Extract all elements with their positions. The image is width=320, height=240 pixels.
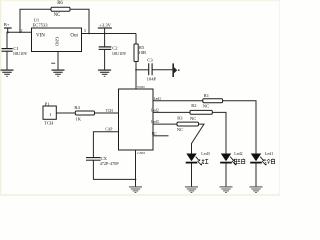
wire to C3 xyxy=(136,69,148,71)
resistor R4 xyxy=(75,111,94,115)
ground (IC) xyxy=(129,187,142,193)
junction +3.3V / C2 xyxy=(104,33,106,35)
wire R1 to Led1 xyxy=(223,101,256,154)
resistor R5 xyxy=(134,44,138,62)
svg-text:10U10V: 10U10V xyxy=(112,51,127,56)
resistor R3 xyxy=(177,122,199,126)
junction C3 tap xyxy=(135,69,137,71)
wire R5 to VDD xyxy=(135,62,137,90)
svg-text:EC7533: EC7533 xyxy=(33,22,49,27)
wire R2 to Led2 xyxy=(212,112,226,153)
svg-text:10R: 10R xyxy=(138,50,147,55)
color glyphs 暖白 (Led2) xyxy=(235,158,245,163)
svg-text:TCH: TCH xyxy=(106,109,114,113)
connector P1 xyxy=(43,106,56,119)
LED Led2 xyxy=(220,154,236,187)
svg-text:C3: C3 xyxy=(147,58,153,63)
wire B+ to VIN xyxy=(8,31,32,33)
junction gnd rail xyxy=(135,179,137,181)
wire Led1 pin xyxy=(153,100,203,102)
svg-text:104P: 104P xyxy=(147,76,157,81)
svg-text:Led1: Led1 xyxy=(154,97,162,101)
svg-text:P1: P1 xyxy=(45,101,51,106)
border tint bottom xyxy=(0,194,280,196)
svg-text:R3: R3 xyxy=(177,116,183,121)
wire R4 to TCH pin xyxy=(95,112,119,114)
wire Led2 pin xyxy=(153,111,190,113)
svg-text:Led1: Led1 xyxy=(265,151,273,156)
pin1 dash (U1 GND) xyxy=(51,62,55,64)
svg-text:1K: 1K xyxy=(75,116,81,121)
svg-text:R1: R1 xyxy=(204,93,209,98)
svg-text:2: 2 xyxy=(21,29,23,33)
svg-text:NC: NC xyxy=(152,132,158,136)
LED Led3 xyxy=(186,154,202,187)
ground (Led3) xyxy=(185,187,198,193)
capacitor C3 xyxy=(149,63,152,75)
resistor R1 xyxy=(203,99,223,103)
svg-text:+3.3V: +3.3V xyxy=(99,23,111,28)
svg-text:VIN: VIN xyxy=(36,33,45,38)
resistor R6 xyxy=(51,7,70,11)
LED Led1 xyxy=(250,154,266,187)
svg-text:B+: B+ xyxy=(4,22,10,27)
transducer symbol xyxy=(172,63,179,77)
svg-text:Led3: Led3 xyxy=(201,151,209,156)
wire IC GND xyxy=(135,150,137,187)
svg-text:TCH: TCH xyxy=(44,121,54,126)
svg-text:472P-470P: 472P-470P xyxy=(100,161,120,166)
color glyph 红 (Led3) xyxy=(202,159,209,164)
ground (C2) xyxy=(98,70,111,77)
border tint left xyxy=(0,0,1,196)
capacitor CX xyxy=(86,158,101,161)
svg-text:10U10V: 10U10V xyxy=(13,51,28,56)
border tint right xyxy=(279,0,280,196)
svg-text:R2: R2 xyxy=(191,103,196,108)
svg-text:Led2: Led2 xyxy=(151,108,159,112)
resistor R2 xyxy=(190,110,212,114)
node B+ power bar xyxy=(4,28,12,32)
svg-text:R6: R6 xyxy=(57,1,63,6)
wire Led3 pin xyxy=(153,123,177,125)
capacitor C2 xyxy=(99,34,112,70)
wire rail to R5 xyxy=(135,34,137,45)
svg-text:NC: NC xyxy=(54,13,61,18)
svg-text:GND: GND xyxy=(137,151,145,155)
svg-text:Out: Out xyxy=(70,34,78,39)
wire U1 GND xyxy=(57,52,59,70)
wire NC stub xyxy=(153,135,169,137)
svg-text:Led3: Led3 xyxy=(151,120,159,124)
ground (C1) xyxy=(1,70,14,77)
svg-text:CAP: CAP xyxy=(105,128,112,132)
svg-text:VDD: VDD xyxy=(137,85,145,89)
regulator U1 box xyxy=(32,28,82,52)
wire R3 diagonal to Led3 xyxy=(192,124,205,153)
wire P1 to R4 xyxy=(56,112,75,114)
junction B+/C1 xyxy=(7,31,9,33)
wire R6 to Out net xyxy=(70,9,89,33)
svg-text:R4: R4 xyxy=(74,105,80,110)
junction R6 return xyxy=(88,33,90,35)
wire riser to R6 xyxy=(20,9,51,32)
ground (U1) xyxy=(52,70,65,77)
wire Out rail xyxy=(82,33,137,35)
capacitor C1 xyxy=(2,32,13,69)
svg-text:3: 3 xyxy=(84,29,86,33)
junction R6 riser xyxy=(19,32,21,34)
ground (Led1) xyxy=(250,187,263,193)
node +3.3V power bar xyxy=(98,28,112,34)
color glyphs 冷白 (Led1) xyxy=(265,158,275,163)
wire CX to gnd rail xyxy=(93,161,135,180)
border tint top xyxy=(0,0,280,1)
IC U2 box xyxy=(119,89,154,150)
ground (Led2) xyxy=(220,187,233,193)
svg-text:NC: NC xyxy=(177,127,183,132)
svg-text:NC: NC xyxy=(190,116,196,121)
svg-text:GND: GND xyxy=(54,37,59,46)
svg-text:NC: NC xyxy=(203,103,209,108)
svg-text:Led2: Led2 xyxy=(234,151,242,156)
wire CAP pin xyxy=(93,132,118,158)
wire C3 to transducer xyxy=(152,69,172,71)
